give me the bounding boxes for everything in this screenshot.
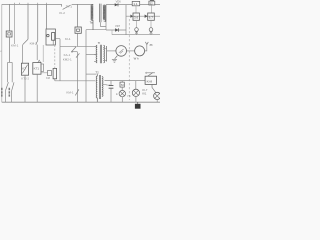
chain below box KA1: [136, 20, 138, 27]
svg-text:KM-1: KM-1: [66, 91, 73, 95]
transformer T1 secondary coil: [103, 5, 105, 22]
wire x14.4: [13, 4, 15, 44]
inner circle of block: [47, 34, 49, 36]
box QF2: [149, 1, 155, 5]
transformer T3 right winding: [102, 77, 103, 97]
svg-text:1.1: 1.1: [133, 2, 138, 6]
secondary top wire: [106, 4, 126, 6]
lamp EL3 lead: [121, 87, 123, 90]
lamp EL3 lead2: [121, 97, 123, 102]
svg-text:KI-2: KI-2: [59, 11, 65, 15]
box QF1: [132, 1, 140, 5]
svg-text:T2: T2: [95, 70, 99, 74]
svg-text:W h: W h: [134, 56, 139, 60]
bottom rail: [2, 101, 160, 103]
svg-text:3.6: 3.6: [134, 16, 139, 20]
capacitor C plates: [109, 86, 114, 89]
wire y54.4: [86, 53, 97, 55]
svg-text:YB: YB: [127, 94, 131, 98]
box KA1: [133, 13, 139, 20]
wire y16: [126, 15, 160, 17]
ground terminal filled: [135, 104, 141, 109]
link to x77.5: [72, 51, 78, 53]
svg-text:KI-7: KI-7: [142, 88, 147, 92]
svg-text:KT1: KT1: [34, 66, 40, 70]
svg-text:C4: C4: [106, 83, 110, 87]
dashed boundary: [128, 19, 130, 100]
wire x43: [42, 45, 44, 62]
transformer T3 left winding: [96, 74, 97, 102]
svg-text:KT2-2: KT2-2: [21, 77, 29, 81]
svg-text:52: 52: [150, 1, 154, 5]
wire x22.4: [21, 45, 23, 63]
T2 right taps: [103, 49, 106, 61]
svg-text:KM-2: KM-2: [30, 41, 38, 45]
switch SB1 blade: [5, 82, 8, 91]
relay box KI: [75, 27, 81, 33]
relay coil KT2: [33, 63, 41, 75]
link box1 down: [135, 6, 137, 13]
wire x77.5 from bus: [77, 4, 79, 27]
right top wire y4.5: [126, 4, 160, 6]
svg-text:KA-1: KA-1: [64, 53, 71, 57]
lamp EL2: [154, 92, 161, 99]
svg-text:KI-8: KI-8: [147, 79, 153, 83]
T2 core: [100, 45, 101, 63]
aux contact box: [48, 71, 52, 76]
stub x112: [111, 30, 113, 35]
fuse box FU1: [6, 31, 12, 37]
wire x46.4: [45, 4, 47, 29]
resistor R1: [53, 68, 57, 78]
wire x60: [59, 46, 61, 81]
wire x9.4 lower: [8, 37, 10, 62]
capacitor C lead: [110, 81, 112, 86]
transformer T2 left winding: [96, 45, 97, 63]
wire SB1 bottom: [4, 91, 6, 102]
switch QS in top bus: [62, 4, 71, 9]
wire to meter: [107, 50, 116, 52]
svg-text:KT: KT: [22, 67, 26, 71]
lamp EL2 lead: [156, 100, 158, 103]
box M: [120, 82, 124, 87]
svg-text:KM2-1: KM2-1: [63, 57, 72, 61]
capacitor C lead2: [110, 89, 112, 103]
T1 secondary return line: [105, 5, 107, 22]
T2 left taps: [94, 47, 97, 62]
diode wire y30: [106, 29, 126, 31]
wire coil KT2 bottom: [36, 74, 38, 102]
contact KM2 blade: [36, 41, 38, 45]
diode VD2: [115, 28, 119, 31]
label SB1 vertical: [1, 88, 3, 97]
diode VD3: [130, 15, 133, 18]
inner resistor of block: [52, 33, 55, 41]
wire x77.5 mid: [77, 33, 79, 46]
wire x86: [85, 30, 87, 103]
limit switch box KI-8: [145, 76, 156, 84]
block KU rect: [46, 29, 55, 45]
lamp EL1 lead2: [135, 96, 137, 102]
lamp EL1: [132, 89, 139, 96]
wire SB2 bottom: [11, 91, 13, 102]
T3 core: [99, 75, 100, 99]
svg-text:Th-1: Th-1: [66, 4, 73, 8]
wire x9.4 upper: [8, 4, 10, 31]
wire coil KT1 bottom: [24, 75, 26, 102]
switch above box: [147, 72, 156, 76]
link coil KT2 to aux: [41, 72, 48, 74]
wire x126: [125, 5, 127, 35]
top bus stubs: [14, 3, 46, 5]
blade to lamp EL2: [152, 84, 156, 92]
svg-text:VD6: VD6: [116, 0, 122, 4]
cut text above QF2: [150, 0, 154, 1]
wire y46.3: [60, 45, 76, 47]
wire x37.7: [37, 4, 39, 40]
wire x37.2: [36, 45, 38, 60]
diode VD4: [145, 15, 148, 18]
diode VD1: [115, 3, 118, 6]
branch wire x7.6: [7, 62, 9, 82]
label SB2 vertical: [8, 88, 10, 97]
svg-text:VD7: VD7: [115, 24, 121, 28]
resistor R1 lead: [54, 79, 56, 81]
blade on x77.5 mid: [76, 53, 79, 57]
left border: [1, 4, 3, 102]
link box2 down: [151, 5, 153, 13]
wire y29.7: [86, 29, 106, 31]
lower bus left: [55, 80, 96, 82]
branch wire x12.2: [11, 62, 13, 82]
indicator circle 2: [149, 28, 153, 32]
transformer T1 core: [100, 4, 101, 23]
svg-text:KI1: KI1: [142, 92, 147, 96]
wire y34.7: [112, 34, 160, 36]
svg-text:KM-1: KM-1: [11, 44, 19, 48]
box M lead: [121, 81, 123, 83]
svg-text:Ta: Ta: [90, 21, 93, 25]
fork symbol: [145, 42, 148, 45]
companion rect right of coil KT2: [41, 64, 44, 71]
lamp EL3: [119, 90, 125, 96]
switch KM-1 blade bottom: [75, 89, 79, 95]
svg-text:KI-1: KI-1: [65, 37, 71, 41]
wire from block bottom: [55, 39, 60, 47]
contact KM blade: [23, 39, 28, 45]
node dot: [71, 51, 73, 53]
switch SB2 blade: [12, 82, 14, 91]
box KA2: [148, 13, 155, 20]
T3 right tap: [102, 84, 107, 86]
meter PA circle: [116, 46, 127, 57]
T1 secondary bottom bar: [101, 22, 107, 31]
transformer T1 primary coil: [91, 4, 93, 29]
T2 right winding: [103, 45, 104, 63]
wire y46.7 right: [78, 46, 98, 48]
T2 right return: [106, 46, 108, 62]
relay coil KT1: [21, 63, 28, 75]
wire x28: [27, 4, 29, 39]
indicator circle 1: [135, 28, 139, 32]
meter PW right wire: [145, 45, 147, 51]
chain below box KA2: [150, 20, 152, 27]
svg-text:TI: TI: [98, 41, 101, 45]
wire x77.5 lower: [77, 52, 79, 102]
meter PW circle: [135, 46, 145, 56]
svg-text:E: E: [116, 92, 118, 96]
ground under meter: [112, 56, 118, 63]
dashed lead below block: [54, 45, 56, 68]
wire split y62.4: [8, 61, 13, 63]
svg-text:6.7: 6.7: [149, 16, 154, 20]
meter to meter wire: [127, 50, 135, 52]
lamp EL1 lead: [135, 81, 137, 90]
chevron above coil: [38, 60, 41, 62]
lower bus right: [105, 80, 146, 82]
top bus wire: [2, 3, 93, 5]
svg-text:KM: KM: [46, 76, 50, 80]
wire y74.1: [86, 73, 96, 75]
contact KA blade: [72, 46, 77, 51]
